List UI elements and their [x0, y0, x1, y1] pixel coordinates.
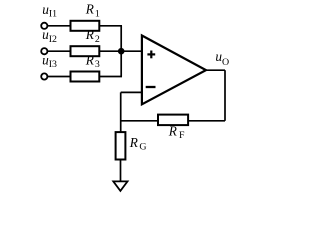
- svg-text:I3: I3: [49, 59, 57, 70]
- svg-text:I2: I2: [49, 34, 57, 45]
- svg-text:R: R: [85, 52, 94, 67]
- svg-text:3: 3: [95, 59, 100, 70]
- svg-text:O: O: [222, 57, 229, 68]
- svg-text:2: 2: [95, 34, 100, 45]
- svg-text:R: R: [129, 135, 138, 150]
- svg-text:F: F: [179, 130, 185, 141]
- svg-text:R: R: [168, 123, 177, 138]
- svg-text:I1: I1: [49, 9, 57, 20]
- svg-text:R: R: [85, 2, 94, 17]
- svg-text:G: G: [139, 141, 146, 152]
- svg-text:1: 1: [95, 8, 100, 19]
- svg-text:R: R: [85, 27, 94, 42]
